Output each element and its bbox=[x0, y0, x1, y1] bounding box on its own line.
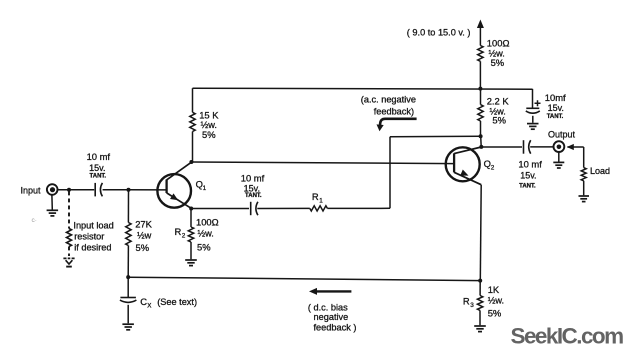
svg-text:5%: 5% bbox=[202, 129, 216, 140]
svg-text:1K: 1K bbox=[488, 284, 500, 295]
wire 27K top leg bbox=[127, 190, 129, 223]
svg-text:(See text): (See text) bbox=[157, 297, 197, 307]
svg-text:100Ω: 100Ω bbox=[487, 37, 510, 48]
wire load tap bbox=[567, 146, 583, 148]
ground R2 bbox=[185, 259, 197, 261]
wire Q2 collector to output cap bbox=[481, 146, 522, 148]
wire riser to Q2 collector node bbox=[390, 135, 481, 138]
ground output terminal bbox=[553, 161, 564, 163]
svg-text:15v.: 15v. bbox=[89, 163, 105, 173]
arrow d.c. feedback bbox=[317, 290, 351, 292]
resistor 15K bbox=[190, 112, 195, 131]
svg-text:Input: Input bbox=[21, 185, 42, 195]
wire 15K bottom leg bbox=[192, 132, 194, 163]
wire R2 bottom leg bbox=[190, 242, 192, 259]
wire dashed input-load drop upper bbox=[68, 192, 70, 229]
svg-text:c·: c· bbox=[32, 217, 37, 224]
node input load tap bbox=[67, 188, 71, 192]
node Q2 collector rail bbox=[479, 134, 483, 138]
transistor Q2 bbox=[446, 147, 480, 181]
svg-text:15v.: 15v. bbox=[520, 170, 536, 180]
wire Q2 emitter drop bbox=[479, 185, 482, 281]
svg-text:TANT.: TANT. bbox=[90, 174, 107, 180]
node 27K / Cx / d.c. feedback bbox=[126, 275, 130, 279]
svg-text:10mf: 10mf bbox=[545, 92, 566, 103]
terminal Input bbox=[47, 184, 58, 195]
svg-text:100Ω: 100Ω bbox=[196, 216, 219, 227]
svg-text:½w.: ½w. bbox=[488, 295, 504, 305]
svg-text:5%: 5% bbox=[492, 115, 506, 126]
svg-text:resistor: resistor bbox=[74, 231, 104, 241]
wire input terminal ground leg bbox=[51, 195, 53, 210]
node Q1 base / 27K tap bbox=[127, 188, 131, 192]
wire 15K top leg bbox=[192, 88, 194, 112]
svg-text:2: 2 bbox=[182, 233, 186, 240]
svg-text:R: R bbox=[175, 226, 182, 237]
svg-text:R: R bbox=[463, 295, 470, 306]
wire output terminal ground leg bbox=[558, 152, 560, 162]
capacitor bypass 10mf bbox=[526, 107, 539, 109]
wire Q1 emitter to coupling cap bbox=[191, 208, 249, 210]
terminal Output bbox=[554, 141, 565, 152]
wire d.c. feedback line bbox=[128, 277, 480, 280]
ground R3 bbox=[474, 325, 486, 327]
ground bypass cap bbox=[527, 123, 539, 125]
svg-text:SeekIC.com: SeekIC.com bbox=[511, 324, 624, 349]
svg-text:Load: Load bbox=[590, 166, 610, 176]
ground Cx bbox=[122, 323, 133, 325]
wire Q1 collector to Q2 base bbox=[192, 162, 454, 164]
resistor R3 1K bbox=[477, 296, 482, 311]
svg-text:3: 3 bbox=[470, 302, 474, 309]
wire Cx bottom leg bbox=[127, 305, 129, 324]
transistor Q1 bbox=[157, 174, 191, 208]
arrow load tap bbox=[567, 144, 574, 150]
resistor Load bbox=[581, 168, 586, 181]
svg-text:TANT.: TANT. bbox=[547, 114, 564, 120]
resistor R1 bbox=[310, 206, 328, 211]
resistor 27K bbox=[126, 223, 131, 246]
svg-text:15v.: 15v. bbox=[548, 103, 564, 113]
svg-text:10 mf: 10 mf bbox=[518, 158, 542, 169]
svg-text:Input load: Input load bbox=[73, 220, 113, 230]
resistor 2.2K bbox=[478, 105, 483, 121]
capacitor output 10mf bbox=[523, 140, 525, 154]
svg-text:10 mf: 10 mf bbox=[241, 172, 265, 183]
wire coupling cap to R1 bbox=[257, 207, 310, 209]
arrow a.c. feedback bbox=[380, 119, 417, 126]
svg-text:Q: Q bbox=[484, 158, 491, 169]
svg-text:(a.c. negative: (a.c. negative bbox=[361, 95, 416, 105]
svg-text:1: 1 bbox=[203, 185, 207, 192]
svg-text:TANT.: TANT. bbox=[519, 183, 536, 189]
supply arrow bbox=[477, 20, 484, 29]
svg-text:½w.: ½w. bbox=[198, 229, 214, 239]
svg-text:27K: 27K bbox=[135, 219, 152, 230]
capacitor input 10mf bbox=[94, 183, 96, 197]
wire R3 bottom leg bbox=[479, 311, 481, 326]
ground load bbox=[579, 195, 590, 197]
wire load top leg bbox=[583, 147, 585, 168]
wire bypass cap ground leg bbox=[532, 116, 534, 123]
svg-text:15 K: 15 K bbox=[199, 109, 219, 120]
wire feedback riser bbox=[389, 137, 391, 209]
node R3 top bbox=[478, 279, 482, 283]
wire R3 top leg bbox=[479, 281, 481, 296]
wire collector node link bbox=[480, 136, 483, 147]
wire R2 top leg bbox=[190, 209, 192, 228]
svg-text:1: 1 bbox=[319, 198, 323, 205]
node Q2 collector output tap bbox=[479, 145, 483, 149]
svg-text:feedback ): feedback ) bbox=[314, 323, 357, 333]
wire 100-ohm to node bbox=[479, 61, 481, 88]
wire 27K bottom leg bbox=[127, 246, 129, 278]
wire dashed input-load drop lower bbox=[68, 247, 70, 257]
svg-text:5%: 5% bbox=[136, 242, 150, 253]
resistor 100ohm supply bbox=[478, 46, 483, 62]
svg-text:R: R bbox=[312, 191, 319, 202]
capacitor Cx bbox=[120, 297, 135, 299]
wire R1 to riser corner bbox=[327, 207, 390, 209]
svg-text:5%: 5% bbox=[197, 241, 211, 252]
svg-text:TANT.: TANT. bbox=[245, 193, 262, 199]
svg-text:( d.c. bias: ( d.c. bias bbox=[308, 303, 348, 313]
ground input terminal bbox=[47, 209, 59, 211]
svg-text:½w: ½w bbox=[137, 231, 152, 241]
node Q1 emitter bbox=[189, 207, 193, 211]
svg-text:5%: 5% bbox=[488, 307, 502, 318]
wire top a.c. feedback rail bbox=[193, 88, 533, 89]
svg-text:5%: 5% bbox=[491, 57, 505, 68]
node supply rail bbox=[478, 87, 482, 91]
svg-text:feedback): feedback) bbox=[374, 107, 414, 117]
ground input load dashed bbox=[63, 257, 74, 259]
svg-text:10 mf: 10 mf bbox=[87, 151, 111, 162]
svg-text:2.2 K: 2.2 K bbox=[487, 96, 510, 107]
wire cap to Q1 base bbox=[103, 189, 166, 191]
node Q1 collector bbox=[189, 160, 193, 164]
wire Cx top leg bbox=[127, 277, 129, 297]
svg-text:X: X bbox=[147, 302, 151, 309]
svg-text:Output: Output bbox=[548, 130, 576, 140]
wire 2.2K bottom leg bbox=[480, 121, 482, 136]
wire output cap to terminal bbox=[530, 146, 553, 148]
wire bypass cap drop bbox=[532, 89, 534, 108]
svg-text:2: 2 bbox=[491, 164, 495, 171]
wire supply drop bbox=[479, 26, 481, 46]
resistor R2 100ohm bbox=[188, 227, 193, 242]
svg-text:C: C bbox=[140, 296, 147, 307]
svg-text:( 9.0 to 15.0 v. ): ( 9.0 to 15.0 v. ) bbox=[407, 28, 471, 38]
wire load bottom leg bbox=[583, 181, 585, 196]
resistor input load (dashed option) bbox=[67, 229, 72, 247]
capacitor coupling 10mf bbox=[250, 202, 252, 215]
svg-text:negative: negative bbox=[314, 312, 349, 322]
wire 2.2K top leg bbox=[480, 89, 482, 105]
label bypass cap plus bbox=[535, 100, 541, 106]
wire input to cap bbox=[57, 189, 94, 191]
svg-text:if desired: if desired bbox=[74, 242, 111, 252]
